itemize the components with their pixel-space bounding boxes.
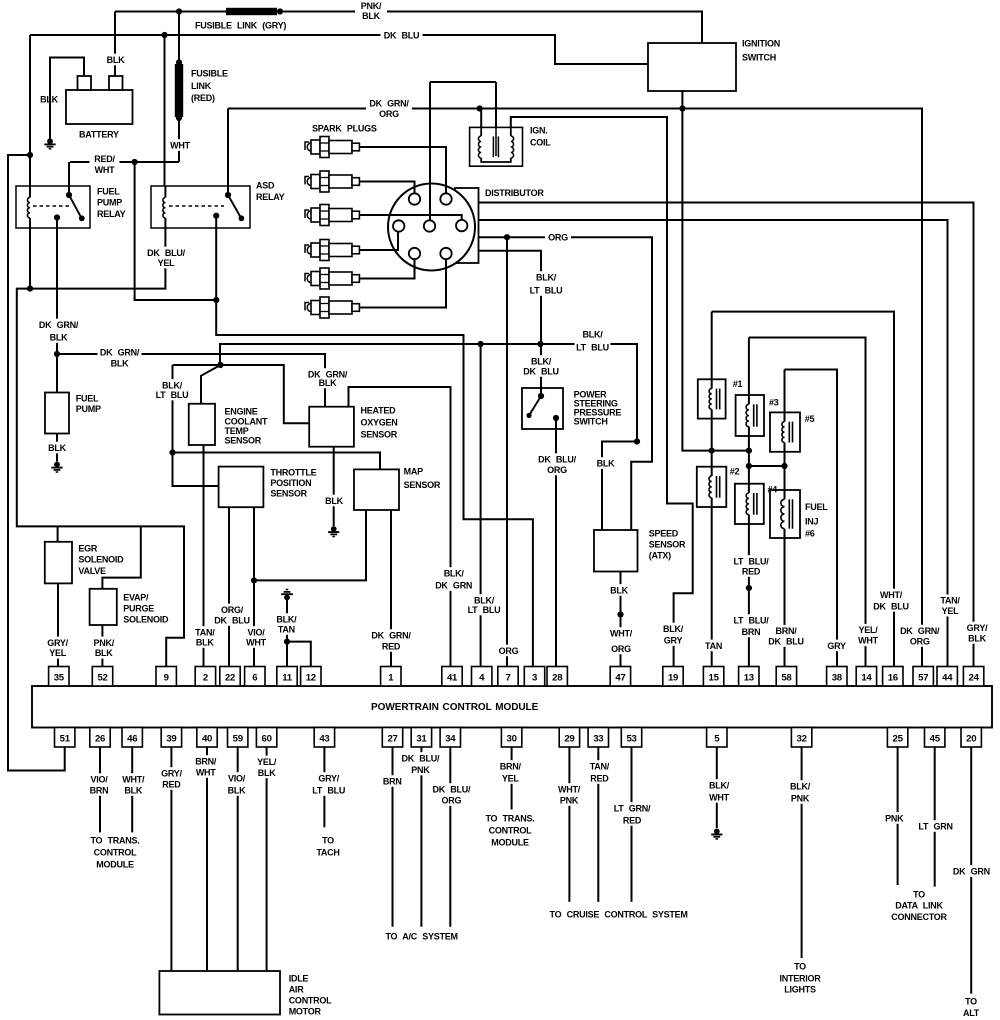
svg-text:DISTRIBUTOR: DISTRIBUTOR — [485, 188, 544, 198]
svg-text:YEL: YEL — [942, 606, 960, 616]
svg-text:DK GRN/: DK GRN/ — [39, 320, 79, 330]
svg-text:TO: TO — [322, 835, 334, 845]
svg-text:34: 34 — [445, 734, 456, 745]
svg-text:RED: RED — [742, 566, 761, 576]
svg-text:IDLE: IDLE — [289, 973, 309, 983]
svg-text:BLK: BLK — [325, 496, 343, 506]
svg-text:WHT: WHT — [246, 637, 266, 647]
svg-text:WHT: WHT — [170, 140, 190, 150]
svg-text:(ATX): (ATX) — [649, 550, 671, 560]
svg-text:TO TRANS.: TO TRANS. — [90, 835, 139, 845]
svg-text:2: 2 — [203, 673, 208, 684]
svg-text:30: 30 — [507, 734, 517, 745]
svg-text:BLK/: BLK/ — [709, 780, 730, 790]
svg-text:CONTROL: CONTROL — [289, 995, 332, 1005]
svg-text:FUEL: FUEL — [97, 186, 120, 196]
svg-text:INJ: INJ — [805, 516, 819, 526]
svg-text:BLK: BLK — [597, 458, 615, 468]
svg-text:YEL: YEL — [49, 648, 67, 658]
svg-text:INTERIOR: INTERIOR — [779, 973, 821, 983]
svg-text:DK GRN: DK GRN — [953, 866, 990, 876]
svg-text:TO A/C SYSTEM: TO A/C SYSTEM — [385, 931, 457, 941]
svg-text:52: 52 — [97, 673, 107, 684]
svg-text:TO: TO — [965, 996, 977, 1006]
svg-text:GRY/: GRY/ — [967, 623, 988, 633]
svg-text:40: 40 — [202, 734, 212, 745]
svg-text:BLK: BLK — [362, 11, 380, 21]
svg-text:16: 16 — [888, 673, 898, 684]
svg-text:DK GRN: DK GRN — [435, 580, 472, 590]
svg-text:TO: TO — [794, 961, 806, 971]
svg-text:15: 15 — [709, 673, 720, 684]
svg-text:BLK/: BLK/ — [790, 781, 811, 791]
svg-text:59: 59 — [233, 734, 243, 745]
svg-text:BLK: BLK — [40, 94, 58, 104]
svg-text:BLK/: BLK/ — [162, 380, 183, 390]
svg-text:51: 51 — [60, 734, 71, 745]
svg-text:AIR: AIR — [289, 984, 305, 994]
svg-text:RED: RED — [590, 773, 609, 783]
svg-text:PUMP: PUMP — [76, 404, 101, 414]
svg-text:SOLENOID: SOLENOID — [78, 554, 124, 564]
svg-text:LT BLU/: LT BLU/ — [733, 556, 769, 566]
svg-text:46: 46 — [127, 734, 137, 745]
svg-text:CONTROL: CONTROL — [489, 825, 532, 835]
svg-text:PUMP: PUMP — [97, 197, 122, 207]
svg-text:60: 60 — [262, 734, 272, 745]
svg-text:BLK: BLK — [258, 768, 276, 778]
svg-text:MODULE: MODULE — [491, 837, 529, 847]
svg-text:BLK: BLK — [48, 443, 66, 453]
svg-text:BLK: BLK — [610, 585, 628, 595]
svg-text:DK BLU/: DK BLU/ — [147, 248, 185, 258]
svg-text:BLK/: BLK/ — [474, 595, 495, 605]
svg-text:#6: #6 — [805, 528, 815, 538]
svg-text:20: 20 — [966, 734, 976, 745]
svg-text:SENSOR: SENSOR — [270, 488, 307, 498]
svg-text:BRN/: BRN/ — [776, 626, 798, 636]
svg-text:WHT: WHT — [709, 792, 729, 802]
svg-text:SENSOR: SENSOR — [649, 539, 686, 549]
svg-text:#2: #2 — [730, 466, 740, 476]
svg-text:11: 11 — [282, 673, 293, 684]
svg-text:6: 6 — [252, 673, 257, 684]
svg-text:LINK: LINK — [191, 81, 212, 91]
svg-text:BLK: BLK — [107, 55, 125, 65]
svg-text:BLK/: BLK/ — [444, 568, 465, 578]
svg-text:WHT/: WHT/ — [558, 784, 581, 794]
svg-text:SPEED: SPEED — [649, 528, 679, 538]
svg-text:TAN/: TAN/ — [940, 596, 960, 606]
svg-text:DK BLU/: DK BLU/ — [538, 454, 576, 464]
svg-text:ASD: ASD — [256, 180, 275, 190]
svg-text:TAN/: TAN/ — [590, 761, 610, 771]
svg-text:VIO/: VIO/ — [228, 773, 246, 783]
svg-text:WHT/: WHT/ — [880, 590, 903, 600]
svg-text:WHT: WHT — [858, 636, 878, 646]
svg-text:BRN/: BRN/ — [500, 761, 522, 771]
svg-text:19: 19 — [668, 673, 678, 684]
svg-text:PNK/: PNK/ — [361, 1, 382, 11]
svg-text:47: 47 — [615, 673, 625, 684]
svg-text:BLK/: BLK/ — [663, 624, 684, 634]
svg-text:HEATED: HEATED — [361, 405, 397, 415]
svg-text:BLK: BLK — [968, 633, 986, 643]
svg-text:ORG: ORG — [611, 644, 631, 654]
svg-text:BLK/: BLK/ — [531, 356, 552, 366]
svg-text:PNK: PNK — [411, 765, 430, 775]
svg-text:LT BLU: LT BLU — [156, 390, 189, 400]
svg-text:IGN.: IGN. — [530, 125, 548, 135]
svg-text:VIO/: VIO/ — [90, 774, 108, 784]
svg-text:POSITION: POSITION — [270, 478, 311, 488]
svg-text:DK BLU/: DK BLU/ — [402, 753, 440, 763]
svg-text:LT GRN/: LT GRN/ — [614, 803, 651, 813]
svg-text:31: 31 — [416, 734, 427, 745]
svg-text:DK GRN/: DK GRN/ — [369, 98, 409, 108]
svg-text:FUSIBLE LINK (GRY): FUSIBLE LINK (GRY) — [195, 20, 286, 30]
svg-text:#3: #3 — [769, 397, 779, 407]
svg-text:LT BLU: LT BLU — [576, 342, 609, 352]
svg-text:YEL/: YEL/ — [257, 757, 277, 767]
svg-text:PNK: PNK — [560, 795, 579, 805]
svg-text:#4: #4 — [768, 484, 778, 494]
svg-text:24: 24 — [969, 673, 980, 684]
svg-text:#5: #5 — [805, 414, 815, 424]
svg-text:TAN: TAN — [278, 624, 295, 634]
svg-text:TAN: TAN — [705, 641, 722, 651]
svg-text:COOLANT: COOLANT — [225, 416, 268, 426]
svg-text:SOLENOID: SOLENOID — [123, 614, 169, 624]
svg-text:22: 22 — [225, 673, 235, 684]
svg-text:ENGINE: ENGINE — [225, 406, 258, 416]
svg-text:BRN: BRN — [742, 627, 761, 637]
svg-text:3: 3 — [532, 673, 537, 684]
svg-text:TEMP: TEMP — [225, 426, 249, 436]
svg-text:TACH: TACH — [316, 847, 339, 857]
svg-text:38: 38 — [832, 673, 843, 684]
svg-text:BLK: BLK — [95, 648, 113, 658]
svg-text:ORG/: ORG/ — [221, 605, 244, 615]
svg-text:BLK/: BLK/ — [583, 329, 604, 339]
svg-text:DK BLU: DK BLU — [214, 615, 250, 625]
svg-text:DK BLU/: DK BLU/ — [433, 784, 471, 794]
svg-text:58: 58 — [781, 673, 792, 684]
svg-text:33: 33 — [593, 734, 603, 745]
svg-text:SENSOR: SENSOR — [225, 435, 262, 445]
svg-text:ORG: ORG — [547, 465, 567, 475]
svg-text:SWITCH: SWITCH — [742, 52, 776, 62]
svg-text:MODULE: MODULE — [96, 859, 134, 869]
svg-text:BLK/: BLK/ — [536, 272, 557, 282]
svg-text:DK BLU: DK BLU — [384, 30, 420, 40]
svg-text:DK BLU: DK BLU — [523, 366, 559, 376]
svg-text:RELAY: RELAY — [97, 209, 126, 219]
svg-text:YEL: YEL — [502, 773, 520, 783]
svg-text:#1: #1 — [733, 379, 743, 389]
svg-text:ALT: ALT — [963, 1008, 980, 1018]
svg-text:BLK: BLK — [124, 785, 142, 795]
svg-text:GRY/: GRY/ — [318, 773, 339, 783]
svg-text:MOTOR: MOTOR — [289, 1006, 322, 1016]
svg-text:DATA LINK: DATA LINK — [895, 900, 943, 910]
svg-text:MAP: MAP — [404, 466, 423, 476]
svg-text:DK BLU: DK BLU — [873, 601, 909, 611]
svg-text:BRN: BRN — [383, 776, 402, 786]
svg-text:GRY: GRY — [664, 635, 683, 645]
svg-text:DK GRN/: DK GRN/ — [100, 347, 140, 357]
svg-text:ORG: ORG — [499, 646, 519, 656]
svg-text:PNK: PNK — [791, 793, 810, 803]
svg-text:GRY/: GRY/ — [47, 638, 68, 648]
svg-text:12: 12 — [306, 673, 316, 684]
svg-text:SENSOR: SENSOR — [361, 429, 398, 439]
svg-text:44: 44 — [942, 673, 953, 684]
svg-text:BLK: BLK — [319, 378, 337, 388]
svg-text:32: 32 — [797, 734, 807, 745]
svg-text:PNK: PNK — [885, 813, 904, 823]
svg-text:BLK: BLK — [111, 358, 129, 368]
svg-text:45: 45 — [930, 734, 941, 745]
svg-text:LT BLU: LT BLU — [312, 785, 345, 795]
svg-text:ORG: ORG — [379, 109, 399, 119]
svg-text:PNK/: PNK/ — [93, 638, 114, 648]
svg-text:SWITCH: SWITCH — [574, 416, 608, 426]
svg-text:14: 14 — [861, 673, 872, 684]
svg-text:RED: RED — [623, 815, 642, 825]
svg-text:28: 28 — [552, 673, 563, 684]
svg-text:EVAP/: EVAP/ — [123, 592, 149, 602]
svg-text:SPARK PLUGS: SPARK PLUGS — [312, 123, 377, 133]
svg-text:25: 25 — [893, 734, 904, 745]
svg-text:53: 53 — [626, 734, 636, 745]
svg-text:EGR: EGR — [78, 543, 98, 553]
svg-text:VALVE: VALVE — [78, 566, 106, 576]
svg-text:SENSOR: SENSOR — [404, 480, 441, 490]
svg-text:BLK: BLK — [228, 785, 246, 795]
svg-text:DK BLU: DK BLU — [768, 636, 804, 646]
svg-text:GRY/: GRY/ — [161, 768, 182, 778]
svg-text:FUSIBLE: FUSIBLE — [191, 68, 228, 78]
svg-text:DK GRN/: DK GRN/ — [900, 626, 940, 636]
svg-text:35: 35 — [54, 673, 65, 684]
svg-text:7: 7 — [505, 673, 510, 684]
svg-text:TAN/: TAN/ — [195, 627, 215, 637]
svg-text:BRN/: BRN/ — [195, 756, 217, 766]
svg-text:COIL: COIL — [530, 137, 551, 147]
svg-text:CONNECTOR: CONNECTOR — [891, 912, 947, 922]
svg-text:WHT/: WHT/ — [610, 628, 633, 638]
svg-text:13: 13 — [744, 673, 754, 684]
svg-text:LIGHTS: LIGHTS — [784, 984, 816, 994]
svg-text:PURGE: PURGE — [123, 603, 154, 613]
svg-text:39: 39 — [166, 734, 176, 745]
svg-text:BRN: BRN — [90, 785, 109, 795]
svg-text:RED: RED — [382, 641, 401, 651]
svg-text:BATTERY: BATTERY — [79, 129, 119, 139]
svg-text:WHT: WHT — [196, 767, 216, 777]
svg-text:BLK/: BLK/ — [276, 614, 297, 624]
svg-text:YEL: YEL — [158, 258, 176, 268]
svg-text:WHT/: WHT/ — [122, 774, 145, 784]
svg-text:IGNITION: IGNITION — [742, 38, 780, 48]
svg-text:ORG: ORG — [548, 233, 568, 243]
svg-text:BLK: BLK — [50, 332, 68, 342]
svg-text:FUEL: FUEL — [76, 393, 99, 403]
svg-text:BLK: BLK — [196, 637, 214, 647]
svg-text:THROTTLE: THROTTLE — [270, 467, 316, 477]
svg-text:POWERTRAIN CONTROL MODULE: POWERTRAIN CONTROL MODULE — [371, 702, 539, 713]
svg-text:FUEL: FUEL — [805, 502, 828, 512]
svg-text:VIO/: VIO/ — [247, 627, 265, 637]
svg-text:LT GRN: LT GRN — [918, 821, 952, 831]
svg-text:27: 27 — [387, 734, 397, 745]
svg-text:TO CRUISE CONTROL SYSTEM: TO CRUISE CONTROL SYSTEM — [550, 909, 688, 919]
svg-text:41: 41 — [447, 673, 458, 684]
svg-text:29: 29 — [564, 734, 574, 745]
svg-text:ORG: ORG — [442, 795, 462, 805]
svg-text:43: 43 — [319, 734, 329, 745]
svg-text:RED: RED — [162, 779, 181, 789]
svg-text:26: 26 — [95, 734, 105, 745]
svg-text:YEL/: YEL/ — [858, 625, 878, 635]
svg-text:57: 57 — [918, 673, 928, 684]
svg-text:(RED): (RED) — [191, 93, 215, 103]
svg-text:TO TRANS.: TO TRANS. — [485, 813, 534, 823]
svg-text:OXYGEN: OXYGEN — [361, 417, 398, 427]
svg-text:ORG: ORG — [910, 636, 930, 646]
svg-text:RELAY: RELAY — [256, 192, 285, 202]
svg-text:9: 9 — [164, 673, 169, 684]
svg-text:TO: TO — [913, 889, 925, 899]
svg-text:LT BLU/: LT BLU/ — [733, 615, 769, 625]
svg-text:DK GRN/: DK GRN/ — [371, 630, 411, 640]
svg-text:WHT: WHT — [95, 165, 115, 175]
svg-text:CONTROL: CONTROL — [94, 847, 137, 857]
svg-text:GRY: GRY — [827, 641, 846, 651]
svg-text:LT BLU: LT BLU — [530, 285, 563, 295]
svg-text:RED/: RED/ — [94, 154, 115, 164]
svg-text:LT BLU: LT BLU — [468, 605, 501, 615]
